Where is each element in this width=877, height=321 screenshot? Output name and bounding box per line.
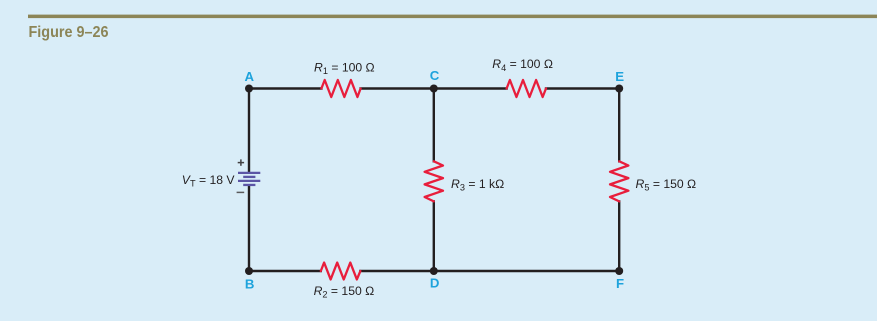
wire right upper: node E to resistor R5 — [618, 89, 620, 162]
resistor R4 — [507, 80, 546, 97]
resistor R2 — [321, 263, 361, 280]
wire middle upper: node C to resistor R3 — [433, 89, 435, 162]
wire left upper: node A to battery + plate — [248, 89, 250, 173]
svg-text:C: C — [430, 68, 440, 83]
svg-text:D: D — [430, 276, 440, 291]
wire bottom-right: resistor R2 to node D to node F — [360, 270, 619, 272]
node B junction dot — [245, 267, 253, 275]
svg-text:R3 = 1 kΩ: R3 = 1 kΩ — [451, 177, 504, 193]
wire top-left: node A to resistor R1 — [249, 87, 321, 89]
node D junction dot — [430, 267, 438, 275]
battery V_T plate short bottom — [243, 184, 255, 186]
svg-text:A: A — [245, 69, 255, 84]
svg-text:Figure 9–26: Figure 9–26 — [29, 24, 109, 41]
battery plus sign — [238, 159, 244, 165]
battery minus sign — [237, 191, 245, 193]
svg-text:B: B — [245, 277, 255, 292]
svg-text:VT = 18 V: VT = 18 V — [182, 173, 236, 189]
battery V_T plate long — [238, 180, 260, 182]
node C junction dot — [430, 85, 438, 93]
resistor R5 — [610, 161, 628, 201]
node A junction dot — [245, 85, 253, 93]
node E junction dot — [615, 85, 623, 93]
svg-text:E: E — [615, 69, 624, 84]
wire bottom-left: node B to resistor R2 — [249, 270, 321, 272]
wire middle lower: resistor R3 to node D — [433, 201, 435, 271]
node F junction dot — [615, 267, 623, 275]
wire right lower: resistor R5 to node F — [618, 201, 620, 271]
figure title rule — [28, 15, 877, 19]
wire top-right: resistor R4 to node E — [546, 87, 619, 89]
svg-text:F: F — [616, 276, 624, 291]
battery V_T plate short — [243, 176, 255, 178]
battery V_T plate long top — [238, 172, 260, 174]
resistor R1 — [321, 80, 360, 97]
resistor R3 — [425, 161, 443, 201]
wire top-middle: resistor R1 to node C to resistor R4 — [361, 87, 507, 89]
wire left lower: battery - plate to node B — [248, 186, 250, 271]
